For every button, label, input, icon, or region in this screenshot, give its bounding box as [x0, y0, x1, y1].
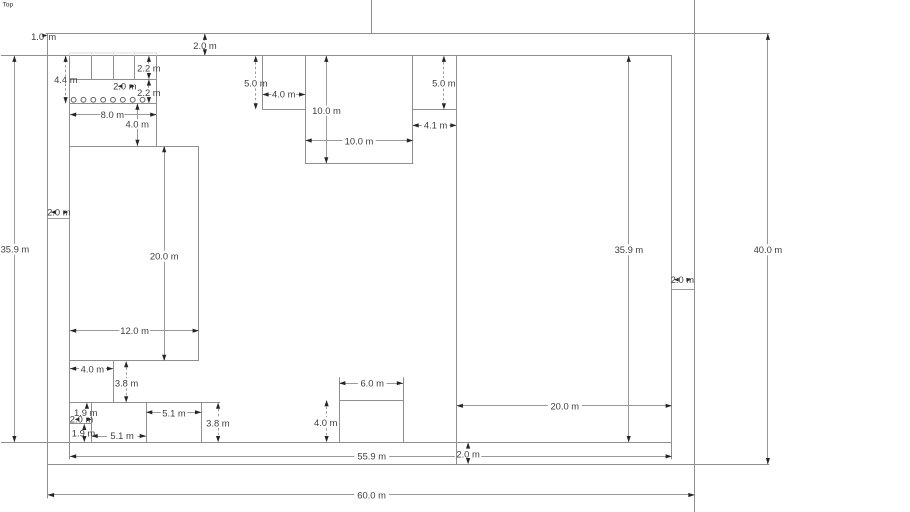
dim arrow 10.0m vert up	[324, 56, 328, 62]
dim line 4.0m below cells	[137, 103, 139, 119]
dim arrow 2.0m corr-left right	[63, 210, 68, 214]
wall: 10m room right	[412, 56, 414, 164]
circle row (8 holes)	[71, 97, 76, 102]
svg-text:2.2 m: 2.2 m	[137, 87, 161, 98]
dim arrow 4.0m bbr right	[107, 367, 113, 371]
wall: outer bottom (ext right for 40m dim)	[48, 464, 770, 466]
wall: big room top	[70, 146, 199, 148]
wall: 4.1m room bottom	[413, 109, 457, 111]
dim arrow 2.0m block right	[87, 418, 92, 422]
dim arrow 8.0m left	[70, 113, 76, 117]
dim arrow 2.0m bottom-center up	[466, 442, 470, 448]
svg-text:3.8 m: 3.8 m	[115, 378, 139, 389]
dim arrow 20.0m bottom right	[666, 404, 672, 408]
svg-text:m: m	[48, 31, 56, 42]
wall: bottom-left block top (ext to 3.8 dim)	[70, 402, 220, 404]
svg-text:55.9 m: 55.9 m	[357, 451, 386, 462]
dim arrow 4.0m below cells up	[135, 103, 139, 109]
wall: big room right	[198, 146, 200, 361]
dim arrow 40.0m down	[766, 458, 770, 464]
svg-text:60.0 m: 60.0 m	[357, 489, 386, 500]
dim arrow 5.1m upper left	[146, 410, 152, 414]
wall: 10m room left	[305, 56, 307, 164]
dim arrow 2.0m block left	[75, 418, 80, 422]
dim line 2.0m top	[204, 34, 206, 41]
svg-text:10.0 m: 10.0 m	[345, 135, 374, 146]
dim arrow 5.0m left up	[254, 56, 258, 62]
dim arrow 5.1m lower left	[91, 434, 97, 438]
wall: 6m room left (ext up)	[339, 377, 341, 442]
svg-text:35.9 m: 35.9 m	[1, 244, 30, 255]
svg-text:20.0 m: 20.0 m	[550, 401, 579, 412]
wall: 10m room bottom	[305, 163, 414, 165]
dim arrow 4.0m 6m-room down	[325, 436, 329, 442]
wall: outer top (with 40m dim extension)	[46, 33, 770, 35]
svg-text:4.4 m: 4.4 m	[54, 74, 78, 85]
dim arrow 35.9m left up	[12, 56, 16, 62]
dim line 10.0m horizontal	[305, 140, 342, 142]
dim arrow 2.0m corr-right left	[674, 278, 679, 282]
dim arrow 35.9m left down	[12, 436, 16, 442]
wall: top stub above outer wall	[371, 0, 373, 34]
dim arrow 6.0m right	[397, 381, 403, 385]
dim arrow 60.0m right	[688, 493, 694, 497]
dim line 6.0m	[339, 383, 358, 385]
dim line 2.0m corridor right	[672, 289, 695, 291]
wall: 3.8m strip left	[113, 361, 115, 403]
dim arrow 4.0m room left	[262, 92, 268, 96]
dim line 8.0m	[70, 114, 100, 116]
dim line 10.0m vertical	[326, 56, 328, 106]
dim line 3.8m right	[218, 409, 220, 418]
dim line 4.4m	[65, 56, 67, 76]
svg-text:4.0 m: 4.0 m	[272, 89, 296, 100]
dim line 5.1m lower	[91, 436, 107, 438]
faint cell stub 2	[91, 53, 93, 56]
svg-text:2.0 m: 2.0 m	[671, 274, 695, 285]
svg-text:5.0 m: 5.0 m	[432, 78, 456, 89]
svg-text:Top: Top	[3, 2, 14, 9]
dim line 4.0m below big room	[70, 368, 79, 370]
dim arrow 20.0m bottom left	[457, 404, 463, 408]
dim arrow 3.8m left down	[124, 396, 128, 402]
dim arrow 1.9m upper up	[85, 403, 89, 409]
dim arrow 12.0m left	[70, 329, 76, 333]
dim arrow 4.0m bbr left	[70, 367, 76, 371]
dim arrow 4.0m room right	[299, 92, 305, 96]
svg-text:4.0 m: 4.0 m	[314, 417, 338, 428]
dim arrow 12.0m right	[193, 329, 199, 333]
dim arrow 4.4m down	[64, 97, 68, 103]
svg-text:2.0 m: 2.0 m	[193, 40, 217, 51]
faint cell stub 1	[69, 53, 71, 56]
faint cell stub 3	[113, 53, 115, 56]
dim arrow 2.2m lower up	[147, 79, 151, 85]
dim arrow 20.0m vert down	[162, 355, 166, 361]
wall: outer right (full height)	[694, 0, 696, 512]
svg-text:35.9 m: 35.9 m	[615, 244, 644, 255]
dim arrow 3.8m left up	[124, 361, 128, 367]
svg-text:8.0 m: 8.0 m	[101, 109, 125, 120]
dim line 60.0m	[48, 494, 354, 496]
dim arrow 10.0m vert down	[324, 157, 328, 163]
dim arrow 4.1m left	[412, 123, 418, 127]
dim line 55.9m	[70, 456, 354, 458]
wall: circles room bottom	[70, 103, 157, 105]
svg-text:2.0 m: 2.0 m	[47, 206, 71, 217]
wall: cell divider 2	[113, 56, 115, 80]
wall: 5m room bottom	[262, 109, 305, 111]
dim arrow 1.0 right	[42, 34, 47, 38]
svg-text:4.0 m: 4.0 m	[125, 118, 149, 129]
dim arrow 3.8m right up	[216, 403, 220, 409]
dim arrow 2.2m upper up	[147, 56, 151, 62]
dim arrow 5.1m upper right	[195, 410, 201, 414]
wall: interior right	[671, 56, 673, 460]
dim arrow 2.2m lower down	[147, 97, 151, 103]
dim arrow 35.9m right down	[627, 436, 631, 442]
dim arrow 5.0m left down	[254, 103, 258, 109]
dim arrow 2.0m top up	[203, 34, 207, 40]
wall: cell divider 3	[134, 56, 136, 80]
svg-text:5.0 m: 5.0 m	[244, 78, 268, 89]
svg-text:3.8 m: 3.8 m	[206, 417, 230, 428]
dim line 5.0m right	[443, 62, 445, 78]
faint cell top edge	[70, 52, 157, 54]
wall: central	[456, 56, 458, 465]
dim arrow 40.0m up	[766, 34, 770, 40]
dim arrow 10.0m horiz left	[305, 138, 311, 142]
wall: block right wall	[201, 403, 203, 443]
dim line 20.0m bottom	[457, 405, 548, 407]
dim arrow 1.9m lower up	[82, 424, 86, 430]
dim arrow 2.0m corr-left left	[51, 210, 56, 214]
faint cell stub 4	[134, 53, 136, 56]
dim line 4.1m	[412, 125, 422, 127]
dim arrow 55.9m right	[666, 454, 672, 458]
dim arrow 4.4m up	[64, 56, 68, 62]
dim arrow 2.2m upper down	[147, 73, 151, 79]
dim line 35.9m left	[14, 56, 16, 244]
wall: interior top wall full width (35.9m extension to left)	[1, 55, 672, 57]
dim arrow 3.8m right down	[216, 436, 220, 442]
svg-text:12.0 m: 12.0 m	[120, 325, 149, 336]
dim arrow 55.9m left	[70, 454, 76, 458]
svg-text:6.0 m: 6.0 m	[360, 377, 384, 388]
dim line 2.2m lower	[148, 86, 150, 88]
dim line 2.2m upper	[148, 62, 150, 64]
dim arrow 2.0m cells left	[118, 84, 123, 88]
dim line 35.9m right	[628, 56, 630, 245]
svg-text:10.0 m: 10.0 m	[312, 105, 341, 116]
dim arrow 35.9m right up	[627, 56, 631, 62]
dim arrow 2.0m top down	[203, 49, 207, 55]
dim arrow 2.0m bottom-center down	[466, 458, 470, 464]
wall: 6m room right (ext up)	[403, 377, 405, 442]
wall: cell divider 1	[91, 56, 93, 80]
dim arrow 5.0m right down	[442, 103, 446, 109]
svg-text:5.1 m: 5.1 m	[110, 430, 134, 441]
wall: cells bottom divider	[70, 79, 157, 81]
faint cell stub 5	[156, 53, 158, 56]
dim arrow 6.0m left	[339, 381, 345, 385]
dim arrow 4.1m right	[450, 123, 456, 127]
dim line 40.0m	[767, 34, 769, 245]
dim line 3.8m left	[126, 368, 128, 379]
dim arrow 2.0m cells right	[130, 84, 135, 88]
wall: cells right wall down to big room	[156, 56, 158, 146]
svg-text:2.2 m: 2.2 m	[137, 63, 161, 74]
wall: block divider a	[91, 403, 93, 443]
dim line 12.0m	[70, 330, 119, 332]
svg-text:40.0 m: 40.0 m	[754, 244, 783, 255]
wall: big room bottom	[70, 360, 199, 362]
dim line 20.0m vertical	[164, 146, 166, 251]
dim arrow 10.0m horiz right	[407, 138, 413, 142]
svg-text:4.1 m: 4.1 m	[424, 120, 448, 131]
dim line 2.0m corridor left	[48, 218, 70, 220]
dim arrow 5.1m lower right	[140, 434, 146, 438]
dim line 5.0m left	[255, 62, 257, 78]
svg-text:2.0 m: 2.0 m	[456, 449, 480, 460]
svg-text:4.0 m: 4.0 m	[81, 363, 105, 374]
dim arrow 2.0m corr-right right	[686, 278, 691, 282]
dim line 4.0m 6m-room	[326, 407, 328, 418]
wall: 1.9m cells divider	[70, 423, 92, 425]
wall: outer left	[47, 34, 49, 499]
wall: interior bottom full width	[1, 442, 672, 444]
dim arrow 1.9m lower down	[82, 436, 86, 442]
dim line 4.0m room	[262, 94, 271, 96]
dim line 5.1m upper	[146, 412, 161, 414]
dim arrow 20.0m vert up	[162, 146, 166, 152]
dim arrow 4.0m below cells down	[135, 140, 139, 146]
dim arrow 8.0m right	[150, 113, 156, 117]
svg-text:1.0: 1.0	[31, 31, 44, 42]
dim arrow 4.0m 6m-room up	[325, 400, 329, 406]
dim arrow 5.0m right up	[442, 56, 446, 62]
wall: 5m room left	[262, 56, 264, 110]
wall: inner left (2m corridor)	[69, 56, 71, 460]
svg-text:5.1 m: 5.1 m	[162, 407, 186, 418]
svg-text:20.0 m: 20.0 m	[150, 251, 179, 262]
wall: block divider b	[146, 403, 148, 443]
wall: 6m room top	[339, 400, 403, 402]
dim arrow 60.0m left	[48, 493, 54, 497]
